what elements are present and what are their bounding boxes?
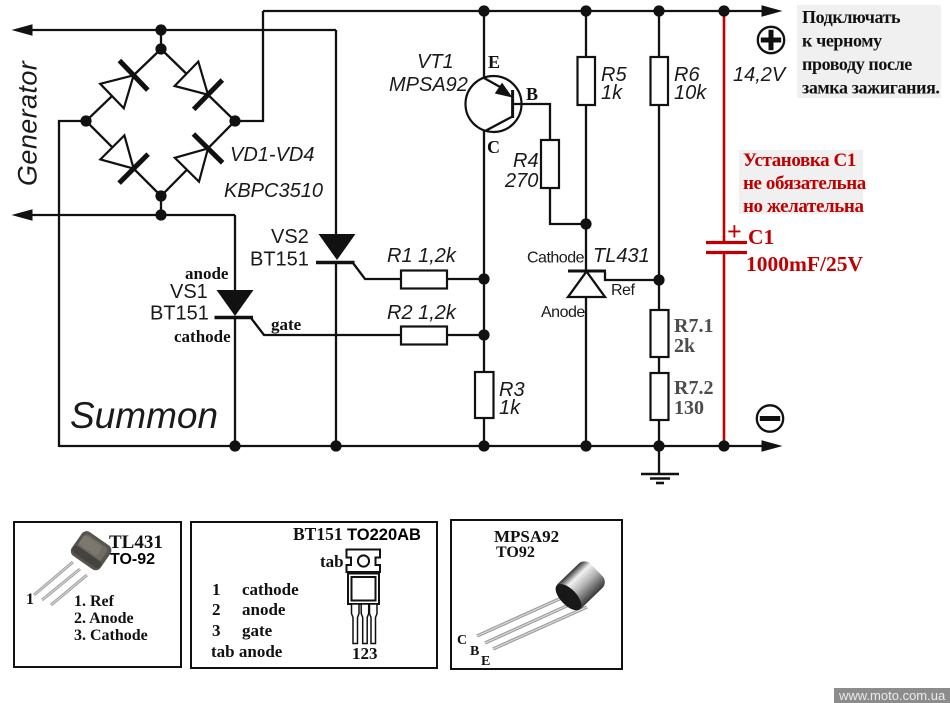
- resistor R1: [401, 271, 447, 289]
- svg-text:Cathode: Cathode: [527, 250, 585, 267]
- diode VD1 (upper-left): [100, 61, 148, 109]
- wire: AC2 drop to VS1 anode: [234, 215, 236, 292]
- resistor R7.1: [651, 310, 669, 357]
- wire: between R7.1 and R7.2: [658, 357, 660, 373]
- node AC1 / bridge top: [155, 24, 166, 35]
- diode VD4 (lower-right): [175, 134, 223, 182]
- wire: base to R4: [514, 104, 550, 140]
- note: Установка С1 (red): [739, 150, 867, 217]
- node bottom rail / VS2: [330, 440, 341, 451]
- ground: [641, 446, 679, 483]
- svg-text:123: 123: [352, 644, 378, 663]
- svg-text:1000mF/25V: 1000mF/25V: [746, 252, 864, 276]
- wire: R7.2 bottom to rail: [658, 420, 660, 446]
- resistor R6: [651, 57, 669, 105]
- transistor VT1: [466, 76, 522, 132]
- wire: R3 bottom to rail: [483, 418, 485, 447]
- svg-text:R7.2: R7.2: [674, 377, 713, 399]
- wire: diode bridge diamond: [86, 49, 235, 196]
- wire: top positive rail: [263, 10, 764, 12]
- svg-text:Подключать: Подключать: [802, 7, 901, 27]
- svg-text:1: 1: [26, 591, 34, 608]
- svg-text:BT151: BT151: [250, 249, 309, 271]
- node top rail / R5: [580, 5, 591, 16]
- svg-text:VS2: VS2: [271, 226, 309, 248]
- svg-text:3. Cathode: 3. Cathode: [74, 627, 148, 644]
- svg-text:anode: anode: [242, 600, 286, 619]
- node top rail / VT1 emitter: [478, 5, 489, 16]
- svg-text:1k: 1k: [499, 397, 521, 419]
- svg-text:Generator: Generator: [13, 60, 43, 186]
- svg-text:cathode: cathode: [242, 580, 299, 599]
- svg-text:www.moto.com.ua: www.moto.com.ua: [838, 688, 946, 703]
- wire: R2 to collector line: [447, 334, 484, 336]
- svg-text:не обязательна: не обязательна: [743, 173, 867, 194]
- svg-text:TO-92: TO-92: [110, 551, 155, 568]
- TO-92 package photo (MPSA92): [477, 558, 608, 649]
- svg-text:к черному: к черному: [802, 31, 882, 51]
- svg-text:1: 1: [212, 580, 221, 599]
- svg-text:3: 3: [212, 621, 221, 640]
- svg-text:gate: gate: [271, 315, 302, 334]
- wire: TL431 ref tail to R7 junction: [605, 272, 659, 280]
- arrow right end of bottom rail: [762, 440, 783, 452]
- svg-text:2. Anode: 2. Anode: [74, 610, 134, 627]
- resistor R2: [401, 327, 447, 345]
- svg-text:2k: 2k: [674, 335, 696, 357]
- svg-text:R1 1,2k: R1 1,2k: [387, 245, 457, 267]
- svg-text:tab: tab: [320, 552, 344, 571]
- svg-text:TL431: TL431: [593, 245, 650, 267]
- thyristor VS2: [316, 234, 356, 263]
- node bottom rail / ground: [653, 440, 664, 451]
- svg-text:Ref: Ref: [611, 282, 635, 299]
- capacitor C1 red branch wire top: [723, 11, 726, 241]
- wire: bridge bottom stub: [160, 196, 162, 215]
- svg-text:C1: C1: [748, 225, 774, 249]
- svg-text:R4: R4: [513, 150, 539, 172]
- svg-text:но желательна: но желательна: [743, 196, 864, 217]
- node top rail / C1: [718, 5, 729, 16]
- node bottom rail / VS1: [229, 440, 240, 451]
- svg-text:gate: gate: [242, 621, 273, 640]
- note: Подключать к черному проводу (black): [797, 5, 941, 98]
- diode VD2 (upper-right): [175, 62, 223, 110]
- info box TL431 pinout: [14, 522, 181, 667]
- wire: AC2 (generator phase 2): [30, 214, 235, 216]
- node AC2 / bridge bottom: [155, 209, 166, 220]
- wire: collector down through R1/R2 junctions to R3: [483, 131, 485, 372]
- TO-92 package photo (TL431): [34, 529, 114, 605]
- arrow right end of top rail: [762, 5, 783, 17]
- node bottom rail / TL431 anode: [580, 440, 591, 451]
- wire: R5 bottom to TL431 cathode: [585, 105, 587, 271]
- TO-220 package drawing: [347, 550, 381, 644]
- svg-text:VD1-VD4: VD1-VD4: [230, 144, 314, 166]
- svg-text:cathode: cathode: [174, 327, 231, 346]
- svg-text:TO220AB: TO220AB: [347, 526, 421, 544]
- svg-text:MPSA92: MPSA92: [389, 74, 468, 96]
- node bridge left: [80, 115, 91, 126]
- svg-text:проводу после: проводу после: [802, 54, 912, 74]
- wire: emitter to top rail: [483, 11, 485, 78]
- svg-text:14,2V: 14,2V: [733, 64, 787, 86]
- svg-text:10k: 10k: [674, 82, 707, 104]
- svg-text:VT1: VT1: [417, 51, 454, 73]
- info box BT151 pinout: [191, 522, 437, 668]
- node Ref / R6-R7.1: [653, 274, 664, 285]
- wire: VS2 cathode down to bottom rail: [335, 262, 337, 447]
- node bottom rail / R3: [478, 440, 489, 451]
- svg-text:tab anode: tab anode: [211, 642, 283, 661]
- arrow left end AC1: [12, 24, 33, 36]
- resistor R3: [475, 372, 494, 418]
- svg-text:2: 2: [212, 600, 221, 619]
- capacitor C1 branch wire bottom: [723, 254, 726, 446]
- node R2 / collector line: [478, 329, 489, 340]
- diode VD3 (lower-left): [100, 135, 148, 183]
- svg-text:+: +: [727, 217, 742, 246]
- node bottom rail / C1: [718, 440, 729, 451]
- svg-text:B: B: [526, 84, 538, 104]
- bottom rail: [59, 445, 764, 447]
- terminal -: [757, 405, 783, 431]
- svg-text:E: E: [488, 52, 500, 72]
- svg-text:R7.1: R7.1: [674, 315, 713, 337]
- svg-text:C: C: [487, 137, 500, 157]
- svg-text:BT151: BT151: [150, 303, 209, 325]
- wire: R5 top: [585, 11, 587, 57]
- wire: bridge left node to left drop: [59, 121, 86, 447]
- svg-text:R2 1,2k: R2 1,2k: [387, 302, 457, 324]
- shunt regulator TL431: [568, 271, 606, 297]
- node R4 / R5 line: [580, 218, 591, 229]
- node bridge bottom: [155, 190, 166, 201]
- svg-text:TL431: TL431: [109, 532, 163, 553]
- svg-text:BT151: BT151: [293, 524, 343, 544]
- resistor R4: [541, 140, 559, 188]
- wire: VS1 gate to R2: [251, 318, 401, 335]
- svg-text:замка зажигания.: замка зажигания.: [802, 78, 940, 98]
- arrow left end AC2: [12, 209, 33, 221]
- resistor R7.2: [651, 373, 669, 420]
- node top rail / R6: [653, 5, 664, 16]
- svg-text:130: 130: [674, 397, 704, 419]
- wire: TL431 anode to bottom rail: [585, 297, 587, 447]
- wire: R6 top: [658, 11, 660, 57]
- svg-text:C: C: [457, 633, 467, 648]
- svg-text:1k: 1k: [601, 82, 623, 104]
- wire: bridge right node to top rail corner: [235, 11, 263, 121]
- wire: VS2 gate to R1: [353, 263, 401, 279]
- svg-text:1. Ref: 1. Ref: [74, 593, 115, 610]
- wire: R1 to collector line: [447, 278, 484, 280]
- resistor R5: [578, 57, 596, 105]
- wire: AC1 (generator phase 1): [30, 29, 336, 31]
- wire: R6 bottom to R7.1: [658, 105, 660, 310]
- svg-text:270: 270: [504, 170, 538, 192]
- terminal +: [758, 27, 784, 53]
- node bridge top: [155, 43, 166, 54]
- svg-text:VS1: VS1: [170, 281, 208, 303]
- svg-text:Anode: Anode: [541, 304, 585, 321]
- thyristor VS1: [215, 290, 254, 318]
- wire: VS1 cathode down to bottom rail: [234, 317, 236, 447]
- svg-text:B: B: [470, 644, 479, 659]
- svg-text:Summon: Summon: [70, 395, 218, 436]
- wire: R4 bottom to R5 line: [550, 188, 586, 224]
- svg-text:KBPC3510: KBPC3510: [224, 180, 323, 202]
- svg-text:Установка С1: Установка С1: [743, 150, 856, 171]
- svg-text:TO92: TO92: [496, 544, 535, 561]
- node bridge right: [229, 115, 240, 126]
- wire: AC1 drop to VS2 anode: [335, 30, 337, 236]
- capacitor C1 plates: [706, 243, 747, 253]
- info box MPSA92: [451, 520, 622, 669]
- watermark bar: [834, 688, 950, 703]
- node R1 / collector line: [478, 273, 489, 284]
- svg-text:E: E: [481, 654, 490, 669]
- wire: bridge top stub: [160, 30, 162, 49]
